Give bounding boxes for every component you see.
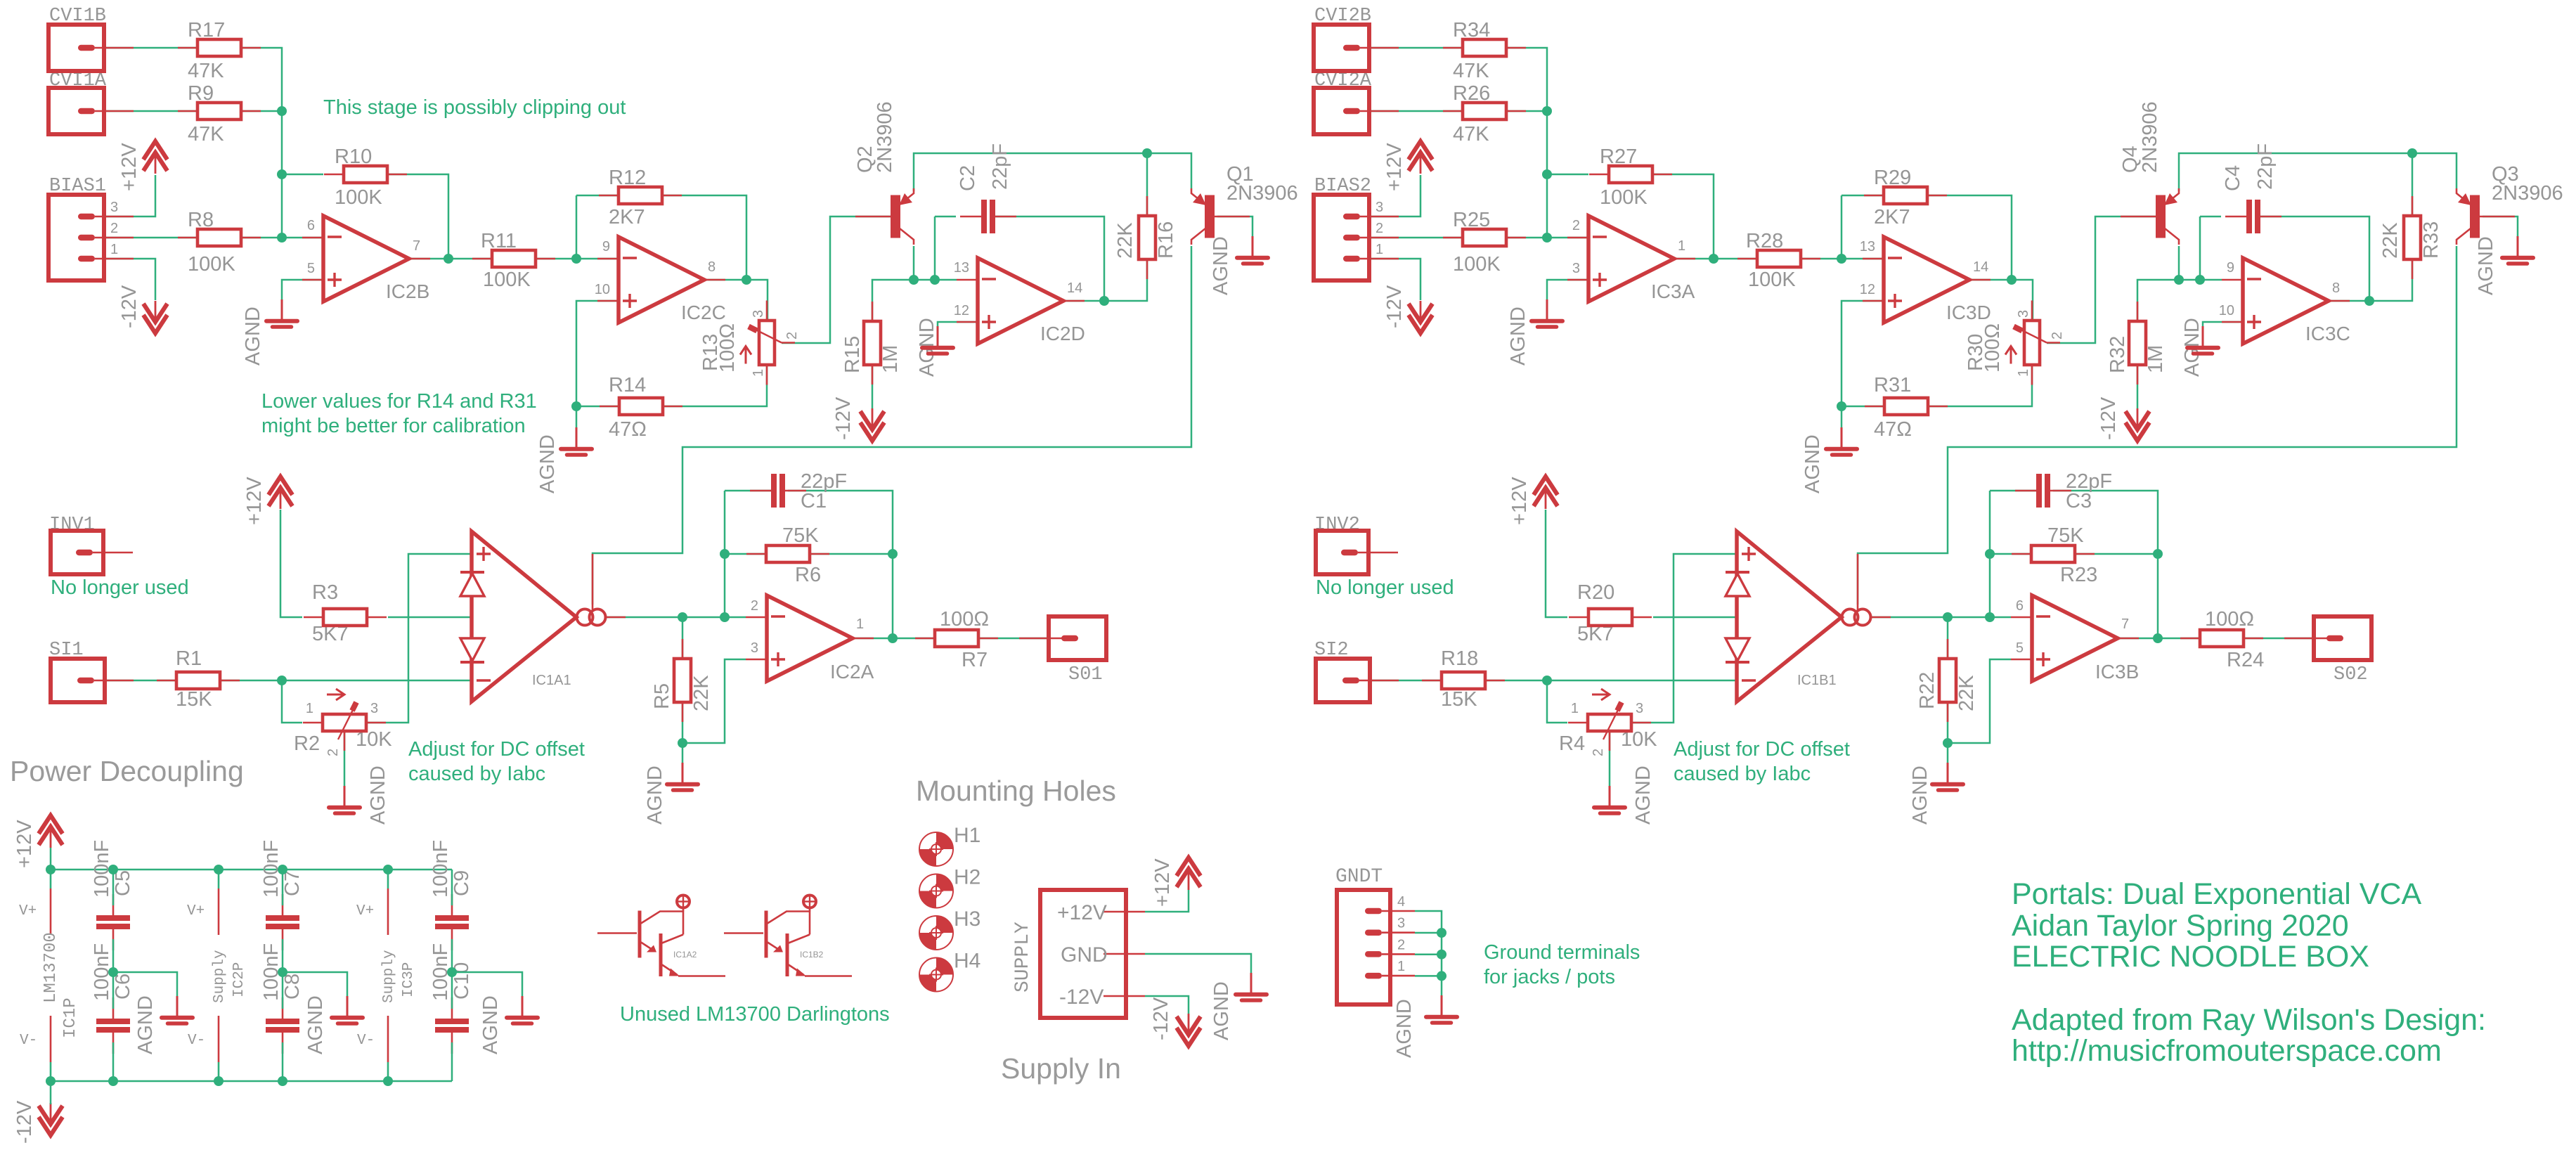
wire: [1547, 174, 1588, 176]
connector SUPPLY: [1040, 890, 1126, 1018]
svg-text:GND: GND: [1061, 943, 1108, 967]
pin +12V: [1103, 911, 1145, 913]
svg-text:12: 12: [954, 303, 969, 318]
junction: [2195, 275, 2205, 285]
svg-text:C5: C5: [112, 870, 134, 896]
svg-text:H3: H3: [954, 907, 980, 931]
power -12V: [2125, 422, 2149, 441]
wire: [280, 510, 302, 617]
svg-text:13: 13: [1860, 239, 1875, 254]
svg-text:2: 2: [1397, 937, 1405, 952]
wire: [344, 731, 346, 786]
svg-text:-12V: -12V: [1150, 997, 1172, 1040]
wire: [451, 939, 453, 1009]
svg-text:2: 2: [325, 749, 341, 756]
wire: [576, 195, 578, 259]
svg-text:47K: 47K: [1453, 123, 1489, 146]
svg-text:No longer used: No longer used: [1316, 576, 1454, 599]
resistor R31: [1865, 406, 1884, 408]
wire: [2483, 217, 2518, 238]
resistor R9: [178, 110, 198, 112]
OTA IC1B1: [1737, 531, 1842, 702]
svg-text:C2: C2: [957, 165, 979, 191]
svg-text:R15: R15: [841, 336, 864, 373]
junction: [277, 169, 287, 179]
junction: [277, 676, 287, 685]
svg-text:IC3B: IC3B: [2095, 661, 2139, 683]
svg-text:7: 7: [2121, 616, 2129, 632]
wire: [451, 870, 453, 905]
wire: [1842, 195, 1884, 197]
svg-text:-12V: -12V: [1383, 285, 1406, 328]
junction: [214, 865, 224, 874]
wire: [663, 365, 767, 406]
svg-text:100Ω: 100Ω: [716, 323, 739, 373]
wire: [1217, 217, 1253, 238]
ground AGND: [1841, 427, 1843, 447]
wire: [1145, 996, 1189, 1014]
wire: [2137, 365, 2139, 408]
svg-text:H2: H2: [954, 866, 980, 889]
svg-text:S01: S01: [1068, 664, 1103, 685]
svg-text:IC1P: IC1P: [61, 997, 80, 1038]
junction: [277, 106, 287, 116]
svg-text:SUPPLY: SUPPLY: [1012, 922, 1034, 993]
wire: [576, 301, 619, 429]
junction: [909, 275, 919, 285]
svg-text:for jacks / pots: for jacks / pots: [1484, 966, 1615, 988]
ground AGND: [576, 427, 578, 447]
wire: [282, 1042, 284, 1081]
svg-text:R23: R23: [2060, 564, 2097, 586]
connector INV1: [51, 531, 103, 574]
svg-text:+12V: +12V: [118, 143, 141, 191]
power +12V: [1534, 477, 1558, 495]
svg-text:+12V: +12V: [1151, 858, 1174, 907]
svg-text:IC1A1: IC1A1: [532, 673, 571, 688]
wire: [50, 1081, 52, 1104]
svg-text:IC1A2: IC1A2: [673, 950, 697, 960]
wire: [593, 246, 1191, 605]
svg-text:IC1B1: IC1B1: [1797, 673, 1837, 688]
svg-text:22K: 22K: [2379, 222, 2402, 259]
svg-text:-12V: -12V: [2097, 396, 2120, 440]
svg-text:47Ω: 47Ω: [1874, 418, 1912, 441]
connector CVI1B: [48, 25, 104, 71]
svg-text:might be better for calibratio: might be better for calibration: [261, 415, 526, 437]
svg-text:+12V: +12V: [1383, 143, 1406, 191]
junction: [2174, 275, 2184, 285]
svg-text:+12V: +12V: [243, 477, 266, 525]
ground AGND: [682, 763, 684, 782]
wire: [2203, 322, 2243, 326]
wire rail bottom: [51, 1080, 452, 1083]
wire: [2179, 153, 2457, 191]
svg-text:V+: V+: [187, 903, 205, 919]
mounting hole H4: [919, 958, 953, 992]
svg-text:R4: R4: [1559, 732, 1585, 755]
potentiometer R4: [1568, 722, 1588, 724]
supply IC2P V+ pin: [218, 870, 220, 889]
wire: [1948, 659, 2011, 743]
junction: [277, 233, 287, 243]
junction: [108, 865, 118, 874]
svg-text:Mounting Holes: Mounting Holes: [916, 775, 1116, 807]
wire: [451, 1042, 453, 1081]
power -12V: [1177, 1028, 1200, 1046]
wire: [682, 659, 746, 743]
wire: [1653, 616, 1737, 619]
potentiometer R13: [766, 301, 768, 321]
wire: [725, 553, 766, 555]
svg-text:47Ω: 47Ω: [609, 418, 647, 441]
junction: [1542, 676, 1552, 685]
resistor R8: [178, 237, 198, 239]
svg-text:No longer used: No longer used: [51, 576, 189, 599]
mounting hole H3: [919, 916, 953, 950]
svg-text:GNDT: GNDT: [1335, 866, 1383, 888]
wire: [682, 702, 684, 763]
wire: [1652, 174, 1714, 259]
op-amp IC3B: [2032, 595, 2118, 681]
wire: [1415, 975, 1442, 977]
svg-text:V-: V-: [20, 1033, 37, 1049]
junction: [2153, 633, 2163, 643]
svg-text:AGND: AGND: [367, 765, 389, 825]
resistor R28: [1737, 258, 1757, 260]
junction: [571, 401, 581, 411]
svg-text:9: 9: [602, 239, 610, 254]
svg-text:22K: 22K: [1955, 675, 1978, 711]
svg-text:8: 8: [708, 259, 716, 275]
wire: [241, 110, 282, 112]
svg-text:Adapted from Ray Wilson's Desi: Adapted from Ray Wilson's Design:: [2012, 1003, 2486, 1037]
junction: [383, 865, 393, 874]
wire: [2244, 638, 2314, 640]
junction: [720, 612, 730, 622]
capacitor C9: [451, 894, 453, 915]
ground AGND: [1252, 236, 1254, 256]
wire: [1870, 616, 2011, 619]
wire: [1842, 406, 1884, 408]
svg-text:100nF: 100nF: [429, 840, 452, 898]
svg-text:AGND: AGND: [304, 995, 327, 1054]
wire: [1370, 110, 1463, 112]
wire: [105, 259, 155, 300]
svg-text:IC2D: IC2D: [1040, 323, 1085, 344]
svg-text:S02: S02: [2334, 664, 2368, 685]
svg-text:1: 1: [1571, 701, 1579, 716]
svg-text:100K: 100K: [188, 253, 235, 276]
ground AGND: [1609, 786, 1611, 806]
resistor R20: [1569, 616, 1588, 619]
svg-text:R6: R6: [795, 564, 821, 586]
resistor R25: [1443, 237, 1463, 239]
resistor R14: [600, 406, 619, 408]
junction: [278, 967, 287, 977]
wire: [682, 617, 684, 659]
svg-text:2: 2: [2050, 332, 2065, 340]
ground AGND: [937, 326, 939, 346]
svg-text:7: 7: [413, 238, 420, 254]
svg-text:R5: R5: [651, 683, 673, 709]
wire: [220, 680, 282, 682]
wire: [1146, 153, 1148, 217]
wire: [978, 638, 1049, 640]
junction: [1099, 296, 1109, 306]
wire: [934, 217, 936, 280]
wire: [112, 870, 115, 905]
wire: [1990, 553, 2031, 555]
svg-text:R2: R2: [294, 732, 320, 755]
ground AGND: [2202, 326, 2204, 346]
OTA IC1A1: [472, 531, 576, 702]
wire: [914, 153, 1191, 191]
capacitor C3: [2015, 490, 2036, 492]
wire: [2200, 216, 2221, 218]
junction: [1709, 254, 1719, 264]
svg-text:R7: R7: [962, 649, 988, 671]
svg-text:1: 1: [1376, 242, 1383, 257]
svg-text:2: 2: [1376, 221, 1383, 236]
connector CVI2A: [1314, 88, 1369, 134]
pin -12V: [1103, 995, 1145, 997]
svg-text:1: 1: [856, 616, 864, 632]
svg-text:R18: R18: [1441, 647, 1478, 670]
wire rail top: [51, 869, 452, 871]
junction: [1542, 233, 1552, 243]
svg-text:1: 1: [1397, 959, 1405, 974]
ground AGND: [347, 996, 349, 1016]
connector BIAS1: [48, 195, 104, 280]
capacitor C2: [960, 216, 981, 218]
resistor R16: [1146, 196, 1148, 216]
wire: [1506, 48, 1547, 111]
svg-text:C4: C4: [2222, 165, 2244, 191]
wire: [1989, 491, 1991, 617]
wire: [387, 174, 448, 259]
wire: [872, 280, 957, 321]
wire: [1370, 680, 1442, 682]
wire: [2178, 246, 2180, 280]
svg-text:75K: 75K: [2047, 524, 2084, 547]
wire: [2329, 259, 2412, 301]
ground AGND: [281, 299, 283, 319]
resistor R34: [1443, 47, 1463, 49]
svg-text:22K: 22K: [690, 675, 713, 711]
resistor R6: [746, 553, 766, 555]
junction: [571, 254, 581, 264]
op-amp IC2B: [323, 216, 409, 302]
junction: [1142, 148, 1152, 158]
junction: [444, 254, 453, 264]
wire: [995, 217, 1104, 301]
svg-text:1M: 1M: [879, 345, 902, 373]
wire: [283, 972, 347, 996]
svg-text:R16: R16: [1155, 221, 1177, 259]
wire: [1990, 490, 2036, 492]
capacitor C10: [451, 997, 453, 1019]
wire: [1415, 932, 1442, 934]
svg-text:14: 14: [1973, 259, 1988, 275]
svg-text:Supply: Supply: [381, 950, 397, 1003]
svg-text:15K: 15K: [1441, 688, 1477, 711]
wire: [1370, 47, 1463, 49]
svg-text:75K: 75K: [782, 524, 819, 547]
wire: [1415, 911, 1442, 1004]
svg-text:2: 2: [110, 221, 118, 236]
wire: [112, 1042, 115, 1081]
svg-text:100K: 100K: [483, 269, 531, 291]
connector S01: [1049, 616, 1106, 660]
wire: [662, 195, 746, 280]
junction: [1837, 254, 1846, 264]
supply IC3P V+ pin: [387, 870, 389, 889]
junction: [2153, 549, 2163, 559]
wire: [282, 174, 323, 176]
svg-text:100K: 100K: [1600, 186, 1648, 209]
wire: [2137, 280, 2222, 321]
wire: [1506, 110, 1547, 112]
wire: [282, 870, 284, 905]
svg-text:13: 13: [954, 260, 969, 276]
wire: [105, 110, 198, 112]
resistor R10: [324, 174, 344, 176]
svg-text:9: 9: [2227, 260, 2234, 276]
junction: [1437, 971, 1446, 981]
svg-text:R20: R20: [1577, 581, 1614, 604]
svg-text:AGND: AGND: [1507, 306, 1529, 366]
wire: [241, 48, 282, 111]
wire: [408, 258, 492, 260]
svg-text:R14: R14: [609, 374, 646, 396]
svg-text:R22: R22: [1916, 672, 1939, 709]
svg-text:-12V: -12V: [13, 1100, 36, 1144]
potentiometer R30: [2031, 301, 2033, 321]
connector CVI2B: [1314, 25, 1369, 71]
supply IC1P V+ pin: [50, 870, 52, 889]
svg-text:IC3P: IC3P: [401, 962, 417, 997]
wire: [105, 47, 198, 49]
svg-text:Lower values for R14 and R31: Lower values for R14 and R31: [261, 390, 537, 413]
svg-text:AGND: AGND: [1210, 236, 1232, 295]
mounting hole H1: [919, 832, 953, 866]
svg-text:H4: H4: [954, 950, 980, 973]
resistor R5: [682, 639, 684, 659]
junction: [720, 549, 730, 559]
wire: [365, 554, 472, 723]
resistor R23: [2012, 553, 2031, 555]
power +12V: [1177, 858, 1200, 876]
ground AGND: [1546, 299, 1548, 319]
resistor R26: [1443, 110, 1463, 112]
ground AGND: [522, 996, 524, 1016]
wire: [1370, 237, 1463, 239]
capacitor C1: [750, 490, 771, 492]
svg-text:3: 3: [1636, 701, 1643, 716]
wire: [1674, 258, 1757, 260]
svg-text:V+: V+: [19, 903, 37, 919]
power +12V: [143, 141, 167, 160]
svg-text:2N3906: 2N3906: [874, 101, 896, 173]
op-amp IC2C: [619, 237, 704, 323]
transistor Q4: [2156, 195, 2166, 238]
wire: [105, 680, 176, 682]
wire: [788, 491, 893, 638]
wire: [1370, 175, 1420, 217]
svg-text:15K: 15K: [176, 688, 212, 711]
resistor R24: [2180, 638, 2200, 640]
capacitor C4: [2225, 216, 2246, 218]
wire: [50, 848, 52, 870]
wire: [388, 616, 472, 619]
junction: [383, 1076, 393, 1086]
svg-text:Unused LM13700 Darlingtons: Unused LM13700 Darlingtons: [620, 1003, 890, 1026]
svg-text:Adjust for DC offset: Adjust for DC offset: [408, 738, 585, 761]
junction: [2364, 296, 2374, 306]
svg-text:caused by Iabc: caused by Iabc: [408, 763, 545, 785]
svg-text:IC3C: IC3C: [2305, 323, 2350, 344]
junction: [930, 275, 940, 285]
svg-text:22K: 22K: [1114, 222, 1137, 259]
svg-text:-12V: -12V: [832, 396, 855, 440]
junction: [1437, 950, 1446, 960]
junction: [2007, 275, 2017, 285]
svg-text:AGND: AGND: [536, 434, 559, 493]
power -12V: [143, 315, 167, 333]
svg-text:R24: R24: [2227, 649, 2264, 671]
svg-text:AGND: AGND: [1801, 434, 1824, 493]
wire: [913, 246, 915, 280]
svg-text:Supply In: Supply In: [1001, 1052, 1121, 1085]
svg-text:C1: C1: [801, 490, 827, 512]
ground AGND: [2517, 236, 2519, 256]
wire: [2047, 217, 2156, 343]
junction: [1542, 169, 1552, 179]
svg-text:1: 1: [1678, 238, 1685, 254]
svg-text:IC2A: IC2A: [830, 661, 874, 683]
wire: [1145, 890, 1189, 912]
ground AGND: [344, 786, 346, 806]
wire: [241, 237, 323, 239]
svg-text:100K: 100K: [1453, 253, 1501, 276]
svg-text:IC2C: IC2C: [681, 302, 726, 323]
svg-text:4: 4: [1397, 894, 1405, 910]
connector BIAS2: [1314, 195, 1369, 280]
junction: [1437, 928, 1446, 938]
wire: [1609, 731, 1611, 786]
junction: [742, 275, 751, 285]
junction: [278, 865, 287, 874]
svg-text:Aidan Taylor Spring 2020: Aidan Taylor Spring 2020: [2012, 909, 2349, 943]
wire: [938, 322, 978, 326]
svg-text:R1: R1: [176, 647, 202, 670]
svg-text:ELECTRIC NOODLE BOX: ELECTRIC NOODLE BOX: [2012, 940, 2369, 974]
svg-text:H1: H1: [954, 824, 980, 847]
wire: [1928, 365, 2032, 406]
power +12V: [268, 477, 292, 495]
resistor R15: [872, 302, 874, 321]
wire: [576, 406, 619, 408]
svg-text:6: 6: [2016, 598, 2024, 614]
svg-text:AGND: AGND: [1632, 765, 1655, 825]
svg-text:2N3906: 2N3906: [2139, 101, 2161, 173]
supply IC2P V- pin: [218, 1016, 220, 1062]
resistor R32: [2137, 302, 2139, 321]
wire: [282, 680, 302, 723]
wire: [852, 638, 935, 640]
svg-text:AGND: AGND: [479, 995, 502, 1054]
